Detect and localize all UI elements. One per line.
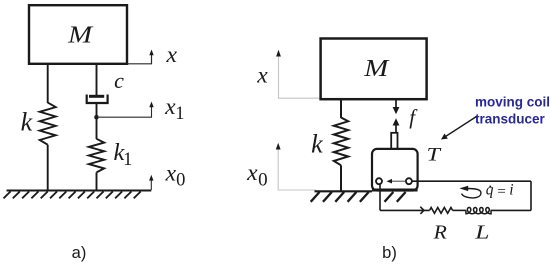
wire resistor to transducer	[380, 209, 430, 211]
svg-text:M: M	[67, 22, 94, 49]
svg-text:k: k	[311, 130, 323, 159]
spring k1	[89, 139, 104, 173]
svg-text:L: L	[474, 222, 489, 244]
svg-text:x: x	[246, 160, 258, 186]
svg-text:q: q	[486, 182, 494, 199]
wire mass to spring k (b)	[340, 99, 342, 118]
wire spring k to ground	[47, 145, 49, 191]
wire damper to node	[96, 103, 98, 118]
wire mass to damper piston	[96, 64, 98, 97]
spring k (b)	[334, 118, 348, 166]
wire coil vertical (left terminal down)	[379, 183, 381, 210]
mass M (a)	[29, 5, 127, 64]
svg-text:T: T	[427, 145, 442, 166]
axis x0 (b) gray	[246, 143, 316, 191]
ground (b) hatching	[311, 192, 406, 202]
annotation arrow	[441, 117, 477, 140]
node junction dot	[94, 115, 99, 120]
svg-text:x: x	[165, 161, 177, 187]
svg-text:k: k	[21, 108, 33, 137]
axis x1 (a)	[99, 94, 185, 124]
transducer box bottom thick	[372, 189, 418, 192]
damper c piston plate	[89, 95, 104, 98]
label k1	[113, 139, 132, 170]
svg-text:transducer: transducer	[475, 112, 546, 127]
svg-text:=: =	[497, 184, 505, 200]
wire spring k1 to ground	[96, 172, 98, 191]
axis x0 (a)	[149, 161, 185, 191]
axis x (b) gray	[256, 50, 320, 98]
transducer plunger	[391, 133, 397, 149]
svg-text:1: 1	[123, 150, 132, 170]
svg-text:b): b)	[382, 244, 397, 262]
wire mass to spring k	[47, 64, 49, 103]
svg-text:x: x	[165, 42, 177, 68]
right terminal	[406, 178, 412, 184]
svg-text:R: R	[433, 222, 448, 244]
left terminal	[376, 178, 382, 184]
wire right terminal to right	[412, 180, 531, 182]
mass M (b)	[321, 39, 427, 100]
svg-text:0: 0	[258, 170, 268, 191]
wire inductor to resistor	[453, 209, 466, 211]
force f arrow up from plunger	[393, 118, 400, 133]
damper c cup	[87, 95, 108, 104]
ground (a) line	[7, 190, 152, 192]
svg-text:moving coil: moving coil	[475, 95, 550, 110]
transducer T box	[372, 149, 418, 191]
svg-text:0: 0	[176, 171, 185, 191]
svg-text:c: c	[114, 68, 124, 93]
svg-text:x: x	[256, 63, 268, 89]
svg-text:i: i	[509, 182, 513, 199]
wire bottom right to inductor	[491, 209, 531, 211]
ground (b) line	[315, 190, 373, 192]
resistor R	[430, 208, 453, 214]
inductor L	[466, 208, 491, 214]
svg-text:M: M	[363, 55, 390, 82]
wire right vertical	[530, 181, 532, 210]
svg-text:1: 1	[175, 104, 184, 124]
ground (a) hatching	[4, 192, 141, 199]
current direction curved arrow	[459, 186, 481, 198]
wire spring k to ground (b)	[340, 165, 342, 191]
terminal arrow (left pointing)	[387, 179, 406, 184]
spring k	[40, 103, 56, 145]
wire node to spring k1	[96, 117, 98, 139]
force f arrow down from mass	[393, 100, 400, 114]
svg-text:a): a)	[72, 244, 87, 262]
wire current arrowhead	[421, 207, 424, 213]
label q-dot = i	[486, 182, 514, 200]
annotation moving coil transducer (blue)	[475, 95, 550, 127]
axis x (a)	[128, 42, 178, 68]
